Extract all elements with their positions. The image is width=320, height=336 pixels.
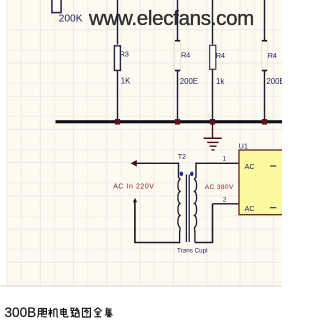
wire column R4b bottom xyxy=(212,69,214,121)
U1 pin 1 dash xyxy=(270,165,276,167)
svg-text:U1: U1 xyxy=(239,142,248,151)
svg-text:300B: 300B xyxy=(5,305,37,320)
resistor R2 (top-left, cut off) body xyxy=(52,0,61,13)
caption glyph dan (胆) xyxy=(37,308,46,317)
caption glyph lu (路) xyxy=(71,308,80,317)
port arrow AC In (bottom) xyxy=(133,198,137,202)
svg-text:200E: 200E xyxy=(266,77,282,86)
svg-text:R3: R3 xyxy=(120,49,129,58)
transformer T2 secondary polarity dot xyxy=(190,172,193,176)
wire column R4c top xyxy=(264,0,266,41)
wire: bottom port down xyxy=(134,201,136,243)
transformer core xyxy=(185,175,187,243)
svg-text:Trans Cupl: Trans Cupl xyxy=(177,248,208,255)
svg-text:AC In 220V: AC In 220V xyxy=(113,184,154,191)
wire: riser to U1 pin 2 xyxy=(213,203,240,205)
wire column R4b top xyxy=(212,0,214,45)
svg-text:AC: AC xyxy=(245,162,255,171)
wire: T2 secondary bottom riser xyxy=(195,204,213,243)
svg-text:T2: T2 xyxy=(178,154,186,161)
junction dot at R3 xyxy=(115,119,120,125)
resistor R4b body xyxy=(210,45,216,69)
wire: T2 secondary top to U1 pin 1 xyxy=(196,163,239,178)
caption glyph jí (集) xyxy=(105,308,113,318)
transformer T2 secondary winding xyxy=(195,178,197,243)
svg-text:1: 1 xyxy=(223,155,227,162)
port arrow AC In (top) xyxy=(131,160,137,167)
svg-text:1K: 1K xyxy=(121,76,131,85)
wire column R3 top xyxy=(117,0,119,45)
svg-text:R4: R4 xyxy=(216,51,225,60)
wire column R4a top xyxy=(177,0,179,41)
resistor R4a body (faint) xyxy=(175,41,181,71)
resistor R3 body xyxy=(114,46,120,71)
transformer T2 primary polarity dot xyxy=(180,172,183,176)
junction dot at R4b/ground xyxy=(210,119,215,125)
caption glyph tu (图) xyxy=(83,308,91,317)
caption glyph quan (全) xyxy=(94,308,102,317)
junction dot at R4a xyxy=(175,119,180,125)
svg-text:www.elecfans.com: www.elecfans.com xyxy=(88,7,254,30)
ground bus wire (thick) xyxy=(56,120,283,123)
wire column R4a bottom xyxy=(177,71,179,122)
schematic sheet background xyxy=(7,0,283,287)
ground symbol xyxy=(204,123,222,150)
svg-text:R4: R4 xyxy=(268,51,277,60)
connector U1 body xyxy=(239,150,285,215)
wire: bottom horizontal to T2 primary bottom xyxy=(135,242,180,244)
sheet bottom edge xyxy=(0,285,282,287)
U1 pin 2 dash xyxy=(270,207,276,209)
resistor R4c body (faint) xyxy=(262,41,268,71)
wire: left port to T2 primary top xyxy=(133,163,179,178)
caption glyph dian (电) xyxy=(61,308,68,317)
svg-text:AC: AC xyxy=(245,204,255,213)
svg-text:R4: R4 xyxy=(181,51,190,60)
svg-text:200E: 200E xyxy=(180,77,198,86)
wire column R3 bottom xyxy=(117,70,119,121)
transformer T2 primary winding xyxy=(178,178,180,243)
wire column R4c bottom xyxy=(264,71,266,122)
svg-text:200K: 200K xyxy=(59,14,83,25)
caption glyph ji (机) xyxy=(48,308,58,317)
svg-text:2: 2 xyxy=(223,196,227,203)
junction dot at R4c xyxy=(262,119,267,125)
svg-text:1k: 1k xyxy=(216,77,224,86)
svg-text:AC 380V: AC 380V xyxy=(205,184,234,191)
